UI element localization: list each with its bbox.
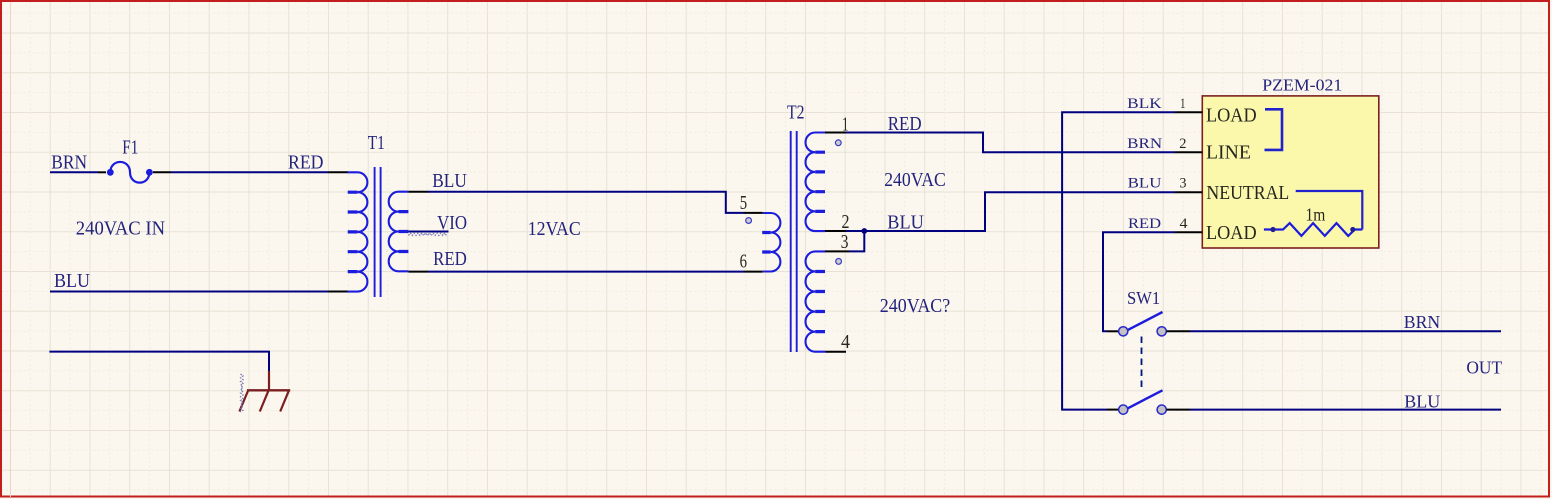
svg-text:BLU: BLU xyxy=(432,171,467,192)
ground bar xyxy=(247,389,290,391)
SW1 upper pin right xyxy=(1167,330,1191,332)
junction xyxy=(861,228,867,234)
T1 pin 4 VIO (center tap) xyxy=(408,231,448,233)
wire junction down to T2 pin3 xyxy=(849,231,864,251)
T2 pin 2 xyxy=(825,230,846,232)
wire BLU input xyxy=(50,291,328,293)
ground stem xyxy=(268,371,270,390)
compile-error squiggle under VIO xyxy=(409,233,447,236)
T1 pin 1 (top primary) xyxy=(328,171,348,173)
resistor 1m xyxy=(1264,223,1362,236)
pin of F1 right xyxy=(153,171,171,173)
svg-text:OUT: OUT xyxy=(1466,358,1502,378)
svg-text:BLU: BLU xyxy=(1128,176,1162,192)
PZEM pin4 xyxy=(1175,231,1202,233)
wire to ground xyxy=(49,352,269,373)
svg-text:SW1: SW1 xyxy=(1127,288,1160,308)
T2 secondary winding 3-4 xyxy=(806,251,826,351)
svg-text:3: 3 xyxy=(841,232,849,253)
T2 pin 5 black pin xyxy=(744,212,763,214)
fuse F1 xyxy=(110,162,149,183)
svg-text:LINE: LINE xyxy=(1206,141,1251,163)
internal bracket LOAD-LINE xyxy=(1265,109,1283,150)
pin of F1 left xyxy=(98,171,106,173)
compile-error squiggle at ground xyxy=(241,374,244,412)
wire BRN input xyxy=(50,171,98,173)
wire BLK: PZEM pin1 to lower switch xyxy=(1062,112,1175,409)
T1 core xyxy=(375,167,381,297)
no-erc circle near T2 pin3 xyxy=(836,259,842,265)
svg-text:1: 1 xyxy=(1180,96,1186,112)
T1 primary winding xyxy=(348,172,368,291)
svg-text:F1: F1 xyxy=(122,138,138,159)
inner border line xyxy=(10,2,12,497)
T2 left (primary) winding xyxy=(762,213,780,272)
wire RED to T2 pin6 xyxy=(428,271,744,273)
wire BRN out xyxy=(1190,330,1501,332)
svg-text:240VAC?: 240VAC? xyxy=(880,296,950,317)
svg-text:T1: T1 xyxy=(368,133,385,154)
svg-text:RED: RED xyxy=(1128,216,1161,232)
svg-text:VIO: VIO xyxy=(437,213,467,234)
svg-text:BRN: BRN xyxy=(51,153,87,174)
svg-text:2: 2 xyxy=(842,212,850,233)
no-erc circle near T2 pin1 xyxy=(835,140,841,146)
svg-text:1m: 1m xyxy=(1306,205,1326,225)
svg-text:BLU: BLU xyxy=(1404,391,1440,411)
svg-text:5: 5 xyxy=(740,193,747,214)
T2 pin 3 xyxy=(825,250,849,252)
svg-text:4: 4 xyxy=(841,332,850,353)
svg-text:NEUTRAL: NEUTRAL xyxy=(1206,182,1289,204)
SW1 lower pin right xyxy=(1167,409,1191,411)
T1 pin 5 RED xyxy=(408,271,428,273)
wire BLU out xyxy=(1190,409,1501,411)
wire BLU 12VAC xyxy=(428,192,744,213)
PZEM-021 sheet symbol xyxy=(1202,96,1379,248)
T2 pin 4 xyxy=(826,351,847,353)
SW1 lower blade xyxy=(1128,390,1163,408)
wire RED T2 pin1 to PZEM pin2 xyxy=(846,133,1175,153)
T1 pin 3 BLU xyxy=(408,191,428,193)
SW1 link dashed xyxy=(1141,337,1143,392)
PZEM pin1 xyxy=(1175,111,1202,113)
wire BLU T2 pin2 to PZEM pin3 xyxy=(846,192,1175,231)
SW1 upper blade xyxy=(1128,312,1163,330)
svg-text:240VAC IN: 240VAC IN xyxy=(76,219,165,240)
PZEM pin3 xyxy=(1175,191,1202,193)
ground hatches xyxy=(239,390,289,411)
svg-text:BLU: BLU xyxy=(54,271,90,292)
svg-text:3: 3 xyxy=(1180,176,1187,192)
svg-text:T2: T2 xyxy=(787,103,805,124)
svg-text:2: 2 xyxy=(1179,136,1186,152)
svg-text:BLK: BLK xyxy=(1127,96,1162,112)
T2 secondary winding 1-2 xyxy=(806,133,826,232)
wire RED: PZEM pin4 to upper switch xyxy=(1103,232,1175,331)
T2 pin 1 xyxy=(825,132,846,134)
svg-text:12VAC: 12VAC xyxy=(528,219,581,240)
svg-text:BRN: BRN xyxy=(1404,312,1440,332)
T2 pin 6 black pin xyxy=(744,271,763,273)
SW1 lower pole pin left xyxy=(1107,409,1118,411)
svg-text:4: 4 xyxy=(1180,216,1189,232)
SW1 upper contacts xyxy=(1119,327,1128,336)
SW1 lower contacts xyxy=(1119,405,1128,414)
svg-text:240VAC: 240VAC xyxy=(884,170,946,191)
SW1 upper pole pin left xyxy=(1107,330,1118,332)
svg-text:PZEM-021: PZEM-021 xyxy=(1262,75,1342,94)
T2 core xyxy=(791,131,797,352)
svg-text:RED: RED xyxy=(433,249,467,270)
svg-text:LOAD: LOAD xyxy=(1206,104,1257,126)
svg-text:BRN: BRN xyxy=(1127,136,1162,152)
svg-text:LOAD: LOAD xyxy=(1206,222,1257,244)
PZEM pin2 xyxy=(1175,151,1202,153)
T1 secondary winding xyxy=(389,192,409,272)
T1 pin 2 (bottom primary) xyxy=(328,291,348,293)
no-erc circle near pin5 xyxy=(746,218,752,224)
wire RED to T1 xyxy=(171,171,328,173)
svg-text:6: 6 xyxy=(740,251,748,272)
svg-text:RED: RED xyxy=(288,153,324,174)
internal NEUTRAL line xyxy=(1296,191,1363,230)
